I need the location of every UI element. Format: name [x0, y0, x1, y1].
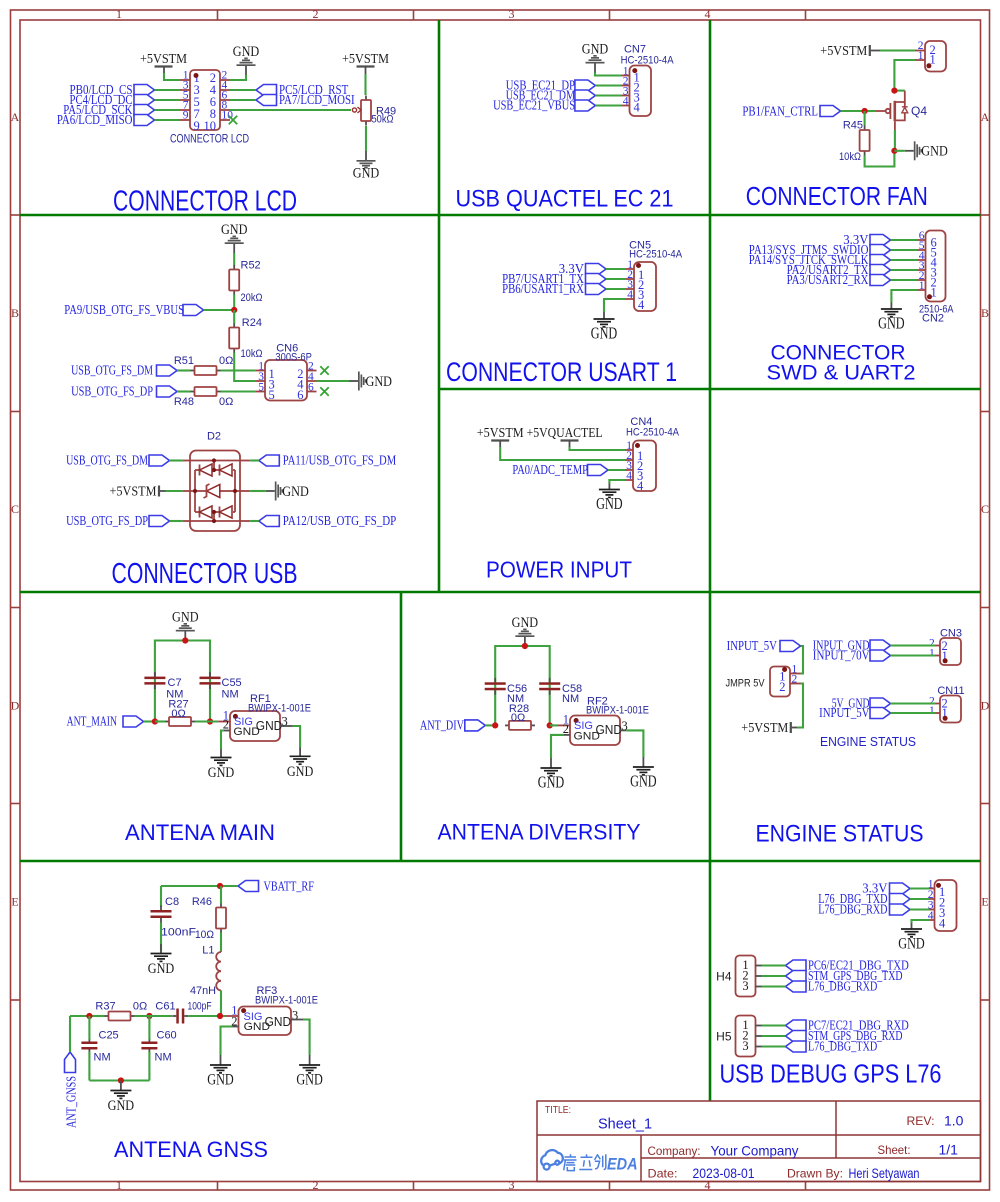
wire pin2 to GND — [230, 75, 246, 80]
label RF3 — [257, 985, 278, 997]
wire VBATT to R46 — [220, 886, 222, 904]
connector CN LCD 2x5 header — [180, 70, 233, 134]
svg-text:ENGINE STATUS: ENGINE STATUS — [820, 735, 916, 749]
ground GND (D2) — [240, 482, 309, 501]
wire R52 to PA9 node — [233, 295, 235, 311]
svg-text:R37: R37 — [95, 1001, 115, 1013]
power +5VSTM (LCD pin1) — [140, 52, 187, 73]
svg-text:ANT_DIV: ANT_DIV — [420, 719, 464, 734]
ground GND (R49 bottom) — [353, 151, 380, 182]
svg-text:ANTENA DIVERSITY: ANTENA DIVERSITY — [438, 820, 641, 845]
net flag L76_DBG_RXD (L76) — [818, 903, 929, 918]
title USB QUACTEL EC 21 — [456, 186, 674, 213]
power +5VQUACTEL — [527, 426, 603, 447]
svg-text:POWER INPUT: POWER INPUT — [486, 557, 632, 583]
label CN4 — [630, 416, 652, 428]
wire gnss row left — [70, 1015, 105, 1017]
resistor R37 0R — [95, 1001, 147, 1021]
svg-text:4: 4 — [638, 298, 645, 312]
junction gnss mid — [146, 1013, 152, 1019]
net flag INPUT_GND — [813, 639, 936, 654]
capacitor C61 100pF series — [155, 1001, 211, 1024]
svg-text:USB QUACTEL EC 21: USB QUACTEL EC 21 — [456, 186, 674, 213]
connector CN5 HC-2510-4A — [626, 259, 656, 312]
label HC-2510-4A (CN5) — [629, 249, 683, 261]
label JMPR 5V — [726, 678, 766, 690]
svg-text:0Ω: 0Ω — [133, 1001, 147, 1013]
title CONNECTOR LCD — [113, 186, 297, 218]
svg-text:HC-2510-4A: HC-2510-4A — [629, 249, 683, 261]
ground GND (RF2 pin3) — [630, 767, 657, 791]
connector H4 — [736, 956, 762, 997]
wire +5VSTM to pin1 — [164, 73, 180, 80]
svg-text:3: 3 — [509, 7, 515, 21]
resistor R52 20k — [229, 260, 262, 305]
svg-text:10kΩ: 10kΩ — [241, 348, 263, 360]
svg-text:3: 3 — [509, 1178, 515, 1192]
net flag PA14/SYS_JTCK_SWCLK (CN2) — [749, 253, 918, 268]
svg-text:GND: GND — [287, 764, 314, 780]
svg-text:CN11: CN11 — [937, 685, 964, 697]
connector CN4 HC-2510-4A — [625, 440, 656, 493]
connector H5 — [736, 1016, 762, 1057]
label RF2 — [587, 696, 608, 708]
svg-text:Company:: Company: — [648, 1144, 701, 1158]
wire RF2 pin3 gnd lead — [642, 757, 644, 767]
logo JLC EDA — [541, 1150, 637, 1173]
label CN6 — [276, 343, 298, 355]
net flag 5V_GND — [832, 697, 936, 712]
net flag ANT_DIV — [420, 719, 495, 734]
svg-text:EDA: EDA — [607, 1156, 638, 1174]
net flag PC6/EC21_DBG_TXD — [762, 959, 909, 974]
svg-text:Sheet_1: Sheet_1 — [598, 1117, 652, 1133]
wire gnss C25 branch — [88, 1016, 90, 1081]
svg-text:1: 1 — [116, 1178, 122, 1192]
label RF1 — [250, 693, 271, 705]
svg-text:BWIPX-1-001E: BWIPX-1-001E — [255, 995, 318, 1007]
transistor Q4 NMOS — [876, 91, 908, 122]
title CONNECTOR USART 1 — [446, 357, 677, 387]
svg-text:6: 6 — [297, 388, 303, 402]
svg-text:C55: C55 — [222, 677, 242, 689]
svg-text:L76_DBG_RXD: L76_DBG_RXD — [808, 980, 877, 995]
svg-text:5: 5 — [269, 388, 275, 402]
resistor R28 0R — [505, 703, 535, 730]
wire +5VSTM to FAN pin2 — [880, 49, 915, 51]
svg-text:1/1: 1/1 — [939, 1142, 959, 1158]
svg-text:Date:: Date: — [648, 1167, 678, 1181]
section divider horizontal mid-right — [439, 388, 981, 391]
resistor R48 0R — [174, 387, 234, 408]
wire RF3 pin2 to GND — [221, 1027, 233, 1056]
ground GND (antena div top) — [512, 615, 539, 646]
wire R46 to L1 — [220, 933, 222, 953]
net flag PA0/ADC_TEMP — [512, 463, 625, 478]
label CN2 — [922, 313, 944, 325]
svg-text:PA7/LCD_MOSI: PA7/LCD_MOSI — [279, 93, 355, 108]
wire RF1 pin2 to GND — [221, 731, 224, 750]
svg-text:C: C — [11, 502, 19, 516]
net flag ANT_GNSS — [65, 1052, 80, 1128]
wire to RF2 pin1 — [558, 724, 570, 726]
net flag USB_EC21_DM — [506, 89, 622, 104]
junction gnss left — [86, 1013, 92, 1019]
svg-text:GND: GND — [591, 324, 618, 343]
svg-text:1: 1 — [919, 280, 925, 292]
wire R24 to CN6 pin3 — [234, 353, 255, 382]
wire main row — [155, 720, 218, 722]
potentiometer R49 50k — [352, 96, 396, 126]
net flag PB6/USART1_RX (CN5) — [502, 282, 626, 297]
svg-text:Heri Setyawan: Heri Setyawan — [849, 1165, 920, 1181]
svg-text:NM: NM — [94, 1052, 111, 1064]
wire CN2 pin1 to GND — [891, 290, 917, 309]
svg-text:50kΩ: 50kΩ — [372, 114, 394, 126]
wire RF1 pin3 to GND — [293, 726, 301, 748]
title block texts — [545, 1105, 964, 1181]
svg-text:ENGINE STATUS: ENGINE STATUS — [756, 821, 924, 848]
net flag INPUT_70V — [813, 649, 936, 664]
net flag PA13/SYS_JTMS_SWDIO (CN2) — [749, 243, 918, 258]
net flag PB7/USART1_TX (CN5) — [502, 272, 626, 287]
capacitor C56 NM — [485, 678, 527, 705]
svg-text:INPUT_70V: INPUT_70V — [813, 649, 870, 664]
svg-text:GND: GND — [221, 222, 248, 238]
svg-text:GND: GND — [148, 961, 175, 977]
net flag PC4/LCD_DC — [70, 93, 181, 108]
net flag USB_OTG_FS_DM (CN6) — [71, 364, 190, 379]
wire R49 to GND — [365, 126, 367, 151]
wire to RF3 pin1 — [226, 1015, 239, 1017]
svg-text:USB_OTG_FS_DP: USB_OTG_FS_DP — [66, 514, 148, 529]
svg-text:GND: GND — [596, 723, 623, 737]
wire R45 to source loop — [865, 151, 895, 167]
ground GND (RF3 pin3) — [296, 1065, 323, 1089]
junction Q4 drain — [891, 88, 897, 94]
svg-text:ANTENA MAIN: ANTENA MAIN — [125, 820, 275, 845]
svg-text:JMPR 5V: JMPR 5V — [726, 678, 766, 690]
wire R48 to CN6 pin5 — [221, 390, 256, 392]
ground GND (CN2) — [878, 309, 905, 333]
svg-text:NM: NM — [562, 693, 579, 705]
svg-text:L76_DBG_TXD: L76_DBG_TXD — [808, 1040, 877, 1055]
label ENGINE STATUS small — [820, 735, 916, 749]
svg-text:20kΩ: 20kΩ — [241, 292, 263, 304]
svg-text:GND: GND — [921, 144, 948, 160]
svg-text:0Ω: 0Ω — [219, 396, 233, 408]
wire antena div top — [495, 646, 550, 725]
resistor R51 0R — [174, 355, 234, 375]
svg-text:100nF: 100nF — [161, 927, 196, 939]
svg-text:C61: C61 — [155, 1001, 175, 1013]
label Q4 — [911, 104, 927, 118]
svg-text:REV:: REV: — [907, 1114, 935, 1128]
RF connector RF1 BWIPX-1-001E — [223, 709, 293, 742]
wire antena main top — [155, 641, 210, 722]
svg-text:GND: GND — [582, 41, 609, 57]
title CONNECTOR SWD & UART2 — [767, 341, 916, 385]
svg-text:R48: R48 — [174, 396, 194, 408]
svg-text:300S-6P: 300S-6P — [275, 352, 312, 364]
svg-text:H5: H5 — [716, 1030, 732, 1044]
net flag STM_GPS_DBG_RXD — [762, 1029, 903, 1044]
net flag PA11/USB_OTG_FS_DM — [240, 454, 397, 469]
label HC-2510-4A (CN4) — [626, 427, 680, 439]
svg-text:4: 4 — [637, 479, 644, 493]
svg-text:L1: L1 — [202, 945, 214, 957]
svg-text:A: A — [11, 110, 20, 124]
svg-text:GND: GND — [630, 772, 657, 791]
diode array D2 — [190, 451, 240, 532]
svg-text:PA12/USB_OTG_FS_DP: PA12/USB_OTG_FS_DP — [283, 514, 397, 529]
svg-text:0Ω: 0Ω — [219, 355, 233, 367]
section divider vertical left-bottom — [400, 592, 403, 861]
svg-text:Drawn By:: Drawn By: — [787, 1167, 843, 1181]
wire C8 gnd lead — [160, 944, 162, 953]
svg-text:2: 2 — [792, 674, 798, 686]
svg-text:B: B — [981, 306, 989, 320]
title block — [537, 1101, 981, 1182]
svg-text:USB_OTG_FS_DM: USB_OTG_FS_DM — [66, 454, 148, 469]
svg-text:PA3/USART2_RX: PA3/USART2_RX — [787, 273, 869, 288]
svg-text:NM: NM — [222, 689, 239, 701]
svg-text:GND: GND — [233, 44, 260, 60]
svg-text:GND: GND — [256, 719, 282, 733]
wire RF3 pin3 to GND — [303, 1020, 310, 1056]
svg-text:R45: R45 — [843, 120, 863, 132]
label CN11 — [937, 685, 964, 697]
wire RF3 pin3 gnd lead — [309, 1055, 311, 1065]
wire R51 to CN6 pin1 — [221, 369, 256, 371]
ground GND (R52 top) — [221, 222, 248, 253]
net flag 3.3V (CN2) — [843, 233, 917, 248]
wire gate to R45 — [864, 111, 866, 126]
svg-text:VBATT_RF: VBATT_RF — [264, 880, 315, 895]
label BWIPX-1-001E (RF3) — [255, 995, 318, 1007]
wire VBATT_RF row — [161, 885, 238, 887]
svg-text:Q4: Q4 — [911, 104, 927, 118]
svg-text:C: C — [981, 502, 989, 516]
svg-text:2023-08-01: 2023-08-01 — [693, 1165, 755, 1181]
svg-text:10kΩ: 10kΩ — [839, 151, 861, 163]
net flag PA2/USART2_TX (CN2) — [787, 263, 918, 278]
svg-text:0Ω: 0Ω — [511, 712, 525, 724]
wire GND to CN7 pin1 — [595, 73, 622, 76]
wire CN5 pin4 to GND — [604, 299, 626, 319]
net flag USB_OTG_FS_DP (D2) — [66, 514, 190, 529]
svg-text:4: 4 — [627, 289, 633, 301]
net flag USB_OTG_FS_DM (D2) — [66, 454, 190, 469]
section divider horizontal middle — [20, 591, 981, 594]
svg-text:2: 2 — [223, 718, 229, 732]
wire bottom gnd lead — [120, 1081, 122, 1091]
svg-text:+5VQUACTEL: +5VQUACTEL — [527, 426, 603, 441]
wire drain link — [894, 90, 904, 92]
capacitor C25 NM — [81, 1030, 118, 1064]
no-connect pin10 — [229, 116, 237, 124]
ground GND (CN6 pin4) — [349, 372, 392, 391]
no-connect CN6 pin6 — [320, 387, 328, 395]
svg-text:9: 9 — [194, 119, 200, 133]
net flag L76_DBG_TXD (L76) — [818, 892, 929, 907]
section divider vertical left-top — [438, 20, 441, 592]
svg-text:4: 4 — [939, 917, 946, 931]
net flag L76_DBG_RXD — [762, 980, 878, 995]
wire gnss row mid — [135, 1015, 173, 1017]
net flag ANT_MAIN — [67, 715, 155, 730]
svg-text:5: 5 — [258, 382, 264, 394]
section divider horizontal lower — [20, 860, 981, 863]
svg-text:9: 9 — [183, 110, 189, 122]
net flag PA12/USB_OTG_FS_DP — [240, 514, 396, 529]
label CN5 — [629, 239, 651, 251]
svg-text:R24: R24 — [242, 317, 262, 329]
junction main top — [182, 637, 188, 643]
power +5VSTM (engine) — [741, 721, 797, 736]
connector CN FAN 2-pin — [915, 40, 946, 72]
ground GND (CN4) — [596, 490, 623, 514]
svg-text:+5VSTM: +5VSTM — [477, 426, 524, 441]
wire gnss bottom — [89, 1079, 149, 1081]
svg-text:C25: C25 — [99, 1030, 119, 1042]
junction main right — [207, 718, 213, 724]
title CONNECTOR FAN — [746, 181, 928, 211]
title ANTENA DIVERSITY — [438, 820, 641, 845]
svg-text:USB DEBUG GPS L76: USB DEBUG GPS L76 — [720, 1059, 942, 1089]
ground GND (CN5) — [591, 319, 618, 343]
svg-text:PB1/FAN_CTRL: PB1/FAN_CTRL — [742, 104, 818, 119]
section divider vertical right — [709, 20, 712, 1101]
label 2510-6A — [919, 304, 954, 316]
wire INPUT_5V to JMPR pin1 — [801, 646, 804, 674]
label H4 — [716, 970, 732, 984]
svg-text:D: D — [981, 699, 990, 713]
svg-text:TITLE:: TITLE: — [545, 1105, 571, 1116]
label CONNECTOR LCD (part) — [170, 134, 249, 146]
net flag PA3/USART2_RX (CN2) — [787, 273, 918, 288]
svg-text:ANT_GNSS: ANT_GNSS — [65, 1076, 80, 1128]
wire RF1 pin3 gnd lead — [299, 748, 301, 757]
svg-text:2: 2 — [779, 680, 785, 694]
svg-text:CONNECTOR FAN: CONNECTOR FAN — [746, 181, 928, 211]
net flag USB_EC21_DP — [506, 79, 622, 94]
svg-text:GND: GND — [538, 773, 565, 792]
junction PA9 node — [231, 307, 237, 313]
svg-text:0Ω: 0Ω — [171, 708, 185, 720]
svg-text:+5VSTM: +5VSTM — [820, 44, 867, 59]
wire Q4 source — [894, 121, 896, 151]
junction gate node — [862, 108, 868, 114]
wire GND to R52 — [233, 253, 235, 266]
ground GND (RF3 pin2) — [207, 1065, 234, 1089]
wire div row — [550, 724, 558, 726]
wire L76 pin4 to GND — [912, 920, 930, 929]
wire RF2 pin2 to GND — [551, 735, 564, 758]
wire source to GND — [894, 150, 904, 152]
ground GND (C25/C60) — [108, 1091, 135, 1115]
svg-text:1: 1 — [929, 648, 935, 660]
svg-text:H4: H4 — [716, 970, 732, 984]
svg-text:GND: GND — [172, 609, 199, 625]
capacitor C60 NM — [141, 1030, 176, 1064]
connector CN2 2510-6A — [918, 230, 946, 302]
svg-text:CONNECTOR LCD: CONNECTOR LCD — [113, 186, 297, 218]
ground GND (RF2 pin2) — [538, 768, 565, 792]
svg-text:CONNECTOR USART 1: CONNECTOR USART 1 — [446, 357, 677, 387]
wire +5VSTM to R49 — [364, 74, 366, 95]
svg-text:E: E — [981, 895, 988, 909]
section divider horizontal top — [20, 214, 981, 217]
resistor R27 0R — [165, 699, 195, 727]
title CONNECTOR USB — [112, 558, 298, 590]
svg-text:GND: GND — [265, 1015, 292, 1029]
label CN7 — [624, 44, 646, 56]
net flag PC5/LCD_RST — [230, 83, 349, 98]
svg-text:CN2: CN2 — [922, 313, 944, 325]
RF connector RF3 BWIPX-1-001E — [231, 1004, 303, 1036]
net flag L76_DBG_TXD — [762, 1040, 878, 1055]
junction gnss L1 node — [217, 1013, 223, 1019]
wire RF2 pin2 gnd lead — [550, 758, 552, 768]
svg-text:+5VSTM: +5VSTM — [110, 485, 157, 500]
junction div right — [547, 722, 553, 728]
resistor R45 10k — [839, 120, 870, 163]
wire RF1 pin2 gnd lead — [220, 749, 222, 758]
svg-text:Your Company: Your Company — [711, 1143, 799, 1159]
svg-text:GND: GND — [512, 615, 539, 631]
wire CN6 pin4 to GND — [317, 380, 350, 382]
svg-text:BWIPX-1-001E: BWIPX-1-001E — [248, 703, 311, 715]
label D2 — [207, 431, 221, 443]
junction gnss bottom — [118, 1077, 124, 1083]
connector JMPR 5V jumper — [770, 664, 801, 697]
svg-text:HC-2510-4A: HC-2510-4A — [626, 427, 680, 439]
svg-text:2: 2 — [313, 7, 319, 21]
svg-text:4: 4 — [623, 96, 629, 108]
svg-text:HC-2510-4A: HC-2510-4A — [621, 55, 675, 67]
svg-text:1: 1 — [116, 7, 122, 21]
wire gate — [865, 110, 876, 112]
label BWIPX-1-001E (RF2) — [586, 704, 649, 716]
wire PA9 node to R24 — [233, 310, 235, 324]
ground GND (C8) — [148, 954, 175, 978]
junction main left — [152, 718, 158, 724]
title POWER INPUT — [486, 557, 632, 583]
wire gnss C60 branch — [148, 1016, 150, 1081]
svg-text:CN3: CN3 — [940, 628, 962, 640]
svg-text:NM: NM — [155, 1052, 172, 1064]
net flag PA5/LCD_SCK — [63, 103, 180, 118]
svg-text:4: 4 — [705, 7, 711, 21]
label H5 — [716, 1030, 732, 1044]
capacitor C7 NM — [144, 672, 183, 700]
ground GND (RF1 pin3) — [287, 756, 314, 780]
svg-text:4: 4 — [634, 100, 641, 114]
svg-text:A: A — [981, 110, 990, 124]
svg-text:C7: C7 — [168, 677, 182, 689]
net flag USB_OTG_FS_DP (CN6) — [71, 385, 190, 400]
svg-text:CONNECTOR LCD: CONNECTOR LCD — [170, 134, 249, 146]
title USB DEBUG GPS L76 — [720, 1059, 942, 1089]
wire +5VQUACTEL to CN4 pin1 — [570, 447, 626, 450]
wire to RF1 pin1 — [218, 721, 230, 723]
connector CN6 300S-6P — [255, 360, 316, 402]
svg-text:BWIPX-1-001E: BWIPX-1-001E — [586, 704, 649, 716]
wire L1 to main row — [220, 990, 222, 1016]
ground GND (CN7 pin1) — [582, 41, 609, 72]
wire pin8 to R49 wiper — [230, 109, 351, 111]
